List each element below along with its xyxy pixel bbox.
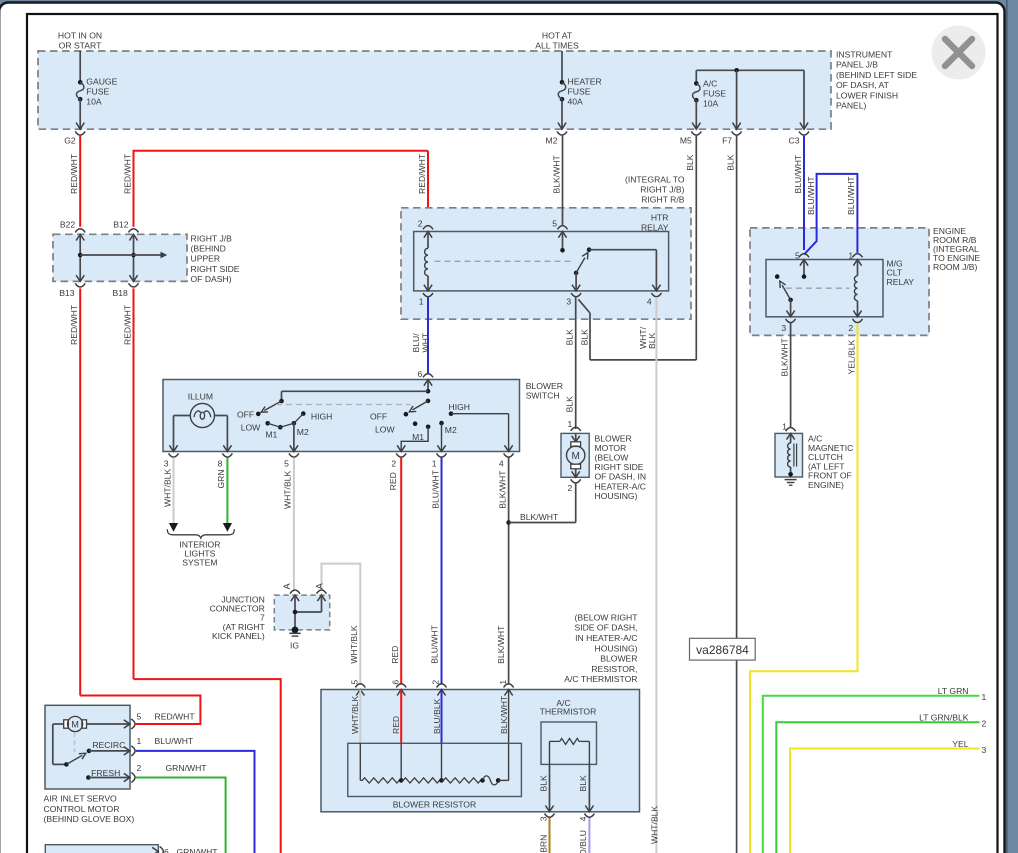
svg-text:RED: RED: [391, 716, 401, 734]
wire heater fuse to M2: [561, 99, 563, 129]
fuse GAUGE FUSE 10A: [78, 80, 83, 85]
svg-text:RECIRC: RECIRC: [92, 740, 125, 750]
svg-text:1: 1: [498, 680, 508, 685]
svg-text:RED: RED: [390, 646, 400, 664]
wire WHT/BLK HTR pin4 down full page: [655, 297, 657, 853]
lamp leads to pins 3 and 8: [174, 415, 191, 417]
svg-text:M2: M2: [297, 427, 309, 437]
svg-text:(BELOW: (BELOW: [595, 453, 630, 463]
svg-text:LT GRN: LT GRN: [938, 686, 969, 696]
svg-text:HTR: HTR: [651, 213, 669, 223]
connector pin G2: [76, 123, 84, 130]
svg-text:BLK/WHT: BLK/WHT: [499, 695, 509, 734]
svg-text:6: 6: [418, 369, 423, 379]
svg-text:OR START: OR START: [59, 41, 102, 51]
svg-text:C3: C3: [789, 135, 800, 145]
svg-text:WHT: WHT: [420, 332, 430, 352]
svg-text:BLK/WHT: BLK/WHT: [779, 338, 789, 377]
svg-text:ENGINE): ENGINE): [808, 480, 844, 490]
wire M2 contact to pin 5: [293, 423, 295, 451]
HTR relay coil link dashed: [435, 260, 572, 262]
svg-text:GRN/WHT: GRN/WHT: [166, 763, 208, 773]
svg-text:YEL: YEL: [952, 739, 968, 749]
svg-text:OF DASH, IN: OF DASH, IN: [595, 472, 647, 482]
svg-text:40A: 40A: [568, 97, 584, 107]
blower switch right arm: [426, 399, 431, 404]
wire to C3: [803, 70, 805, 129]
right HIGH contact to pin 4: [449, 411, 454, 416]
svg-text:RED/WHT: RED/WHT: [122, 153, 132, 194]
HTR relay pin 3: [571, 293, 581, 297]
right LOW contact: [413, 421, 418, 426]
connector pin F7: [733, 123, 741, 130]
svg-text:5: 5: [284, 458, 289, 468]
svg-text:BLU/WHT: BLU/WHT: [846, 176, 856, 215]
svg-text:A: A: [282, 583, 292, 589]
svg-text:BLU/WHT: BLU/WHT: [429, 624, 439, 663]
svg-text:10A: 10A: [86, 97, 102, 107]
svg-text:8: 8: [218, 458, 223, 468]
svg-text:RIGHT SIDE: RIGHT SIDE: [595, 462, 644, 472]
junction block RIGHT J/B dashed box: [53, 234, 187, 281]
svg-text:OF DASH, AT: OF DASH, AT: [836, 80, 890, 90]
svg-text:4: 4: [578, 816, 588, 821]
servo motor wiring: [53, 723, 64, 725]
svg-text:FRESH: FRESH: [91, 768, 120, 778]
ground at clutch: [785, 479, 797, 481]
resistor assembly top pins 5 6 2 1: [355, 684, 365, 688]
wire LT GRN/BLK connector 2: [776, 722, 979, 853]
svg-text:HIGH: HIGH: [311, 412, 332, 422]
svg-text:M1: M1: [265, 430, 277, 440]
wire hot-at-all-times feed to heater fuse: [561, 51, 563, 82]
svg-text:5: 5: [795, 250, 800, 260]
svg-text:GRN/WHT: GRN/WHT: [177, 847, 219, 853]
svg-text:KICK PANEL): KICK PANEL): [212, 631, 265, 641]
wire RED/WHT B18 down: [133, 288, 135, 679]
svg-text:2: 2: [137, 763, 142, 773]
wire RED/WHT branch to B12 and HTR relay pin2: [133, 151, 135, 227]
svg-text:M: M: [71, 720, 79, 730]
servo RECIRC contact pin 1: [87, 749, 92, 754]
svg-text:HEATER: HEATER: [568, 77, 602, 87]
wire BLK/WHT switch pin4 to resistor pin1: [508, 458, 510, 685]
svg-text:RED/WHT: RED/WHT: [155, 712, 196, 722]
svg-text:A: A: [315, 583, 325, 589]
svg-text:VIO/BLU: VIO/BLU: [578, 830, 588, 853]
svg-text:3: 3: [538, 816, 548, 821]
close button: [932, 26, 986, 80]
HTR relay pin 4 label: [651, 293, 661, 297]
svg-text:WHT/BLK: WHT/BLK: [162, 469, 172, 507]
svg-text:RIGHT J/B): RIGHT J/B): [640, 185, 684, 195]
wire BLK M5 down to pin3 branch: [695, 136, 697, 360]
connector pin C3: [800, 123, 808, 130]
svg-text:YEL/BLK: YEL/BLK: [846, 339, 856, 374]
svg-text:B12: B12: [113, 219, 129, 229]
fuse HEATER FUSE 40A: [560, 80, 565, 85]
HTR relay pin 1: [423, 293, 433, 297]
svg-text:(BEHIND GLOVE BOX): (BEHIND GLOVE BOX): [44, 814, 135, 824]
HTR relay NO contact to pin 4: [587, 247, 592, 252]
svg-text:LT GRN/BLK: LT GRN/BLK: [919, 713, 969, 723]
svg-text:BLOWER: BLOWER: [595, 433, 632, 443]
wire BRN pin3 down: [549, 818, 551, 853]
svg-text:RED/WHT: RED/WHT: [69, 304, 79, 345]
svg-text:RED: RED: [388, 472, 398, 490]
svg-text:SIDE OF DASH,: SIDE OF DASH,: [574, 623, 637, 633]
svg-text:BLK: BLK: [565, 329, 575, 346]
svg-text:M5: M5: [680, 135, 692, 145]
wires inside resistor box: [359, 690, 361, 744]
wire YEL connector 3: [790, 749, 980, 853]
svg-text:A/C THERMISTOR: A/C THERMISTOR: [564, 674, 637, 684]
svg-text:F7: F7: [722, 135, 732, 145]
svg-text:1: 1: [432, 458, 437, 468]
svg-text:BLK/WHT: BLK/WHT: [496, 625, 506, 664]
svg-text:6: 6: [164, 847, 169, 853]
svg-text:M2: M2: [546, 135, 558, 145]
blower switch link dashed: [276, 404, 411, 406]
svg-text:BLK: BLK: [647, 332, 657, 349]
wire RED/WHT B13 down: [79, 288, 81, 695]
svg-text:1: 1: [848, 250, 853, 260]
svg-text:5: 5: [350, 680, 360, 685]
wire gauge fuse to G2: [79, 99, 81, 129]
svg-text:BRN: BRN: [538, 835, 548, 853]
scrollbar strip right edge: [1006, 0, 1008, 853]
HTR relay inner box: [414, 232, 669, 291]
relay M/G CLT RELAY inner box: [766, 260, 883, 317]
svg-text:B18: B18: [113, 288, 129, 298]
svg-text:3: 3: [164, 458, 169, 468]
svg-text:BLK/WHT: BLK/WHT: [520, 512, 559, 522]
svg-text:RIGHT J/B: RIGHT J/B: [191, 233, 233, 243]
left LOW M1 M2 contacts: [265, 421, 270, 426]
wire BLU/WHT jumper pin5 to pin1: [804, 174, 857, 255]
svg-text:FUSE: FUSE: [703, 89, 726, 99]
svg-text:(BEHIND: (BEHIND: [191, 244, 226, 254]
wire RED/WHT B18 down to bottom: [134, 679, 281, 853]
resistor element chain: [360, 778, 401, 783]
wire GRN/WHT servo pin2 down: [136, 778, 226, 853]
wire BLU/WHT HTR pin1 to blower switch pin6: [427, 298, 429, 375]
svg-text:HOUSING): HOUSING): [595, 491, 638, 501]
wire hot-in-on feed to gauge fuse: [79, 51, 81, 82]
wire bus from a/c fuse to F7 and C3: [696, 69, 804, 71]
M/G relay coil link dashed: [786, 287, 850, 289]
wire GRN pin8 to interior lights: [226, 458, 228, 524]
svg-text:2: 2: [568, 483, 573, 493]
svg-text:M2: M2: [445, 425, 457, 435]
partial box at bottom left: [45, 845, 158, 853]
wire BLK thermistor to pin 3: [549, 764, 551, 811]
HTR relay coil: [427, 232, 429, 249]
right M1 contact to pin 2: [426, 425, 431, 430]
brace interior lights: [167, 529, 234, 538]
svg-text:FUSE: FUSE: [568, 87, 591, 97]
svg-text:2: 2: [982, 719, 987, 729]
svg-text:6: 6: [390, 680, 400, 685]
connector pin B13: [75, 283, 85, 287]
svg-text:BLK: BLK: [579, 329, 589, 346]
wire RED/WHT G2 to B22: [79, 136, 81, 227]
connector pin M2: [558, 123, 566, 130]
wire B22 through J/B: [76, 234, 84, 240]
M/G relay switch arm: [788, 298, 793, 303]
svg-text:4: 4: [647, 296, 652, 306]
svg-text:RED/WHT: RED/WHT: [69, 153, 79, 194]
svg-text:BLK: BLK: [685, 154, 695, 171]
bottom box pin 6 GRN/WHT: [152, 847, 158, 853]
svg-text:2: 2: [418, 218, 423, 228]
svg-text:M1: M1: [412, 432, 424, 442]
svg-text:MOTOR: MOTOR: [595, 443, 627, 453]
svg-text:OFF: OFF: [237, 410, 254, 420]
wire BLK HTR pin3 to blower motor: [575, 297, 577, 429]
right OFF contact: [404, 412, 409, 417]
resistor assembly bottom pin 4: [584, 814, 594, 818]
svg-text:1: 1: [419, 296, 424, 306]
HTR relay switch arm: [574, 271, 579, 276]
svg-text:1: 1: [137, 736, 142, 746]
wire BLU/WHT servo pin1 down: [136, 751, 255, 853]
svg-text:5: 5: [137, 712, 142, 722]
servo AIR INLET SERVO CONTROL MOTOR box: [45, 705, 130, 789]
svg-text:CONNECTOR: CONNECTOR: [210, 604, 265, 614]
svg-text:10A: 10A: [703, 99, 719, 109]
servo mechanical link dashed: [74, 732, 76, 752]
svg-text:B22: B22: [60, 219, 76, 229]
resistor assembly bottom pin 3: [545, 814, 555, 818]
svg-text:ROOM J/B): ROOM J/B): [933, 262, 978, 272]
svg-text:WHT/BLK: WHT/BLK: [349, 625, 359, 663]
blower switch feed bus: [427, 380, 429, 392]
servo motor symbol: [64, 720, 69, 728]
wire a/c fuse to M5: [695, 100, 697, 129]
right M2 contact to pin 1: [439, 421, 444, 426]
left OFF contact: [256, 412, 261, 417]
svg-text:2: 2: [391, 458, 396, 468]
svg-text:4: 4: [499, 458, 504, 468]
svg-text:5: 5: [552, 218, 557, 228]
wire YEL/BLK M/G pin2 down: [750, 323, 858, 853]
blower switch left arm: [264, 401, 281, 411]
connector pin B18: [129, 283, 139, 287]
svg-text:2: 2: [431, 680, 441, 685]
svg-text:BLK/WHT: BLK/WHT: [497, 470, 507, 509]
svg-text:HIGH: HIGH: [449, 402, 470, 412]
blower motor pin 2: [571, 479, 581, 483]
servo pin 5 wire to motor: [87, 723, 131, 725]
wire BLK F7 down full page: [736, 136, 738, 853]
wire RED/WHT B13 to servo pin 5: [80, 696, 200, 725]
svg-text:HOT IN ON: HOT IN ON: [58, 31, 102, 41]
wire BLK/WHT M/G pin3 to clutch: [790, 323, 792, 427]
HTR relay common contact node: [560, 248, 565, 253]
svg-text:HOUSING): HOUSING): [595, 643, 638, 653]
blower switch bottom pins 3 8 5 2 1 4: [169, 453, 179, 457]
svg-text:RIGHT R/B: RIGHT R/B: [641, 195, 685, 205]
svg-text:UPPER: UPPER: [191, 254, 221, 264]
svg-text:GAUGE: GAUGE: [86, 77, 117, 87]
fuse A/C FUSE 10A: [695, 70, 697, 83]
svg-text:WHT/BLK: WHT/BLK: [350, 696, 360, 734]
wire BLU/WHT C3 to M/G relay pin 5: [803, 136, 805, 250]
junction B22 bus: [78, 253, 83, 258]
svg-text:ALL TIMES: ALL TIMES: [535, 41, 579, 51]
svg-text:va286784: va286784: [696, 643, 749, 657]
servo FRESH contact pin 2: [86, 775, 91, 780]
tag va286784: [690, 638, 756, 660]
junction connector 7 dashed box: [274, 595, 329, 630]
servo switch arm: [66, 755, 82, 764]
svg-text:RIGHT SIDE: RIGHT SIDE: [191, 264, 240, 274]
svg-text:BLU/WHT: BLU/WHT: [806, 176, 816, 215]
junction B12 bus: [131, 253, 136, 258]
svg-text:GRN: GRN: [216, 469, 226, 488]
svg-text:BLU/BLK: BLU/BLK: [432, 698, 442, 734]
svg-text:3: 3: [566, 296, 571, 306]
wire J/B internal bus with arrow: [80, 254, 160, 256]
wire WHT/BLK pin3 to interior lights: [173, 458, 175, 524]
svg-text:RELAY: RELAY: [887, 277, 915, 287]
relay HTR RELAY dashed box: [401, 208, 691, 319]
junction block ENGINE ROOM R/B dashed box: [750, 228, 929, 336]
M/G relay pin 2: [853, 319, 863, 323]
junction F7 bus: [734, 68, 739, 73]
connector pin M5: [692, 123, 700, 130]
svg-text:B13: B13: [59, 288, 75, 298]
blower resistor assembly box: [321, 690, 640, 812]
left HIGH contact: [301, 411, 306, 416]
svg-text:BLU/WHT: BLU/WHT: [793, 154, 803, 193]
wire BLK thermistor to pin 4: [588, 764, 590, 811]
svg-text:SYSTEM: SYSTEM: [182, 558, 217, 568]
instrument panel J/B dashed box: [38, 51, 831, 129]
wire BLU/WHT switch pin1 to resistor pin2: [441, 458, 443, 685]
blower resistor inner box: [348, 743, 522, 796]
svg-text:SWITCH: SWITCH: [526, 390, 560, 400]
svg-text:HOT AT: HOT AT: [542, 31, 573, 41]
wire LT GRN connector 1: [763, 696, 980, 853]
svg-text:3: 3: [781, 323, 786, 333]
svg-text:(INTEGRAL TO: (INTEGRAL TO: [625, 174, 685, 184]
svg-text:BLOWER: BLOWER: [526, 381, 563, 391]
svg-text:ILLUM: ILLUM: [188, 391, 213, 401]
junction BLK/WHT blower motor tap: [506, 520, 511, 525]
svg-text:BLK: BLK: [578, 775, 588, 792]
svg-text:WHT/BLK: WHT/BLK: [283, 471, 293, 509]
svg-text:RED/WHT: RED/WHT: [417, 153, 427, 194]
svg-text:(BEHIND LEFT SIDE: (BEHIND LEFT SIDE: [836, 70, 917, 80]
svg-text:3: 3: [982, 745, 987, 755]
svg-text:RED/WHT: RED/WHT: [122, 304, 132, 345]
svg-text:OF DASH): OF DASH): [191, 274, 232, 284]
M/G relay NC contact: [775, 274, 780, 279]
svg-text:PANEL): PANEL): [836, 101, 867, 111]
svg-text:HEATER-A/C: HEATER-A/C: [595, 481, 646, 491]
svg-text:LOW: LOW: [241, 423, 261, 433]
switch BLOWER SWITCH box: [163, 380, 520, 452]
wire WHT/BLK junction connector to blower resistor pin5: [322, 564, 361, 685]
wire B12 through J/B: [129, 234, 137, 240]
svg-text:G2: G2: [64, 135, 76, 145]
svg-text:THERMISTOR: THERMISTOR: [540, 706, 597, 716]
svg-text:A/C: A/C: [703, 79, 717, 89]
junction connector internals: [291, 595, 299, 601]
svg-text:BLK: BLK: [565, 396, 575, 413]
svg-text:BLOWER RESISTOR: BLOWER RESISTOR: [393, 799, 476, 809]
svg-text:INSTRUMENT: INSTRUMENT: [836, 50, 893, 60]
svg-text:WHT/BLK: WHT/BLK: [650, 806, 660, 844]
svg-text:LOW: LOW: [375, 425, 395, 435]
svg-text:BLU/WHT: BLU/WHT: [430, 469, 440, 508]
wire WHT/BLK pin5 to junction connector: [293, 458, 295, 591]
svg-text:1: 1: [982, 692, 987, 702]
svg-text:1: 1: [568, 419, 573, 429]
svg-text:PANEL J/B: PANEL J/B: [836, 60, 878, 70]
svg-text:BLOWER: BLOWER: [600, 654, 637, 664]
svg-text:BLU/WHT: BLU/WHT: [155, 736, 194, 746]
ground IG: [292, 627, 299, 634]
wire to F7: [736, 70, 738, 129]
svg-text:AIR INLET SERVO: AIR INLET SERVO: [44, 793, 118, 803]
svg-text:RESISTOR,: RESISTOR,: [591, 664, 637, 674]
M/G relay pin 3: [786, 319, 796, 323]
svg-text:LOWER FINISH: LOWER FINISH: [836, 90, 898, 100]
svg-text:BLK/WHT: BLK/WHT: [551, 155, 561, 194]
svg-text:OFF: OFF: [370, 411, 387, 421]
svg-text:M: M: [572, 451, 580, 462]
wire RED switch pin2 to resistor pin6: [400, 458, 402, 685]
wire BLK/WHT M2 to HTR pin 5: [562, 136, 564, 227]
svg-text:(BELOW RIGHT: (BELOW RIGHT: [574, 612, 638, 622]
svg-text:2: 2: [848, 323, 853, 333]
svg-text:BLK: BLK: [538, 775, 548, 792]
wire VIO/BLU pin4 down: [588, 818, 590, 853]
svg-text:FUSE: FUSE: [86, 87, 109, 97]
svg-text:BLK: BLK: [725, 154, 735, 171]
svg-text:IN HEATER-A/C: IN HEATER-A/C: [575, 633, 637, 643]
svg-text:IG: IG: [290, 641, 299, 651]
svg-text:CONTROL MOTOR: CONTROL MOTOR: [44, 804, 120, 814]
